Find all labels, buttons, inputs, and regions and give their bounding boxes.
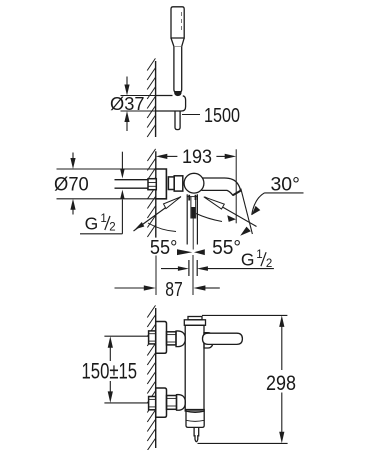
label 55deg right [212, 237, 241, 259]
lower connector nut [167, 396, 177, 410]
leader line 1500 [182, 114, 200, 116]
wall hatching (top view) [147, 58, 155, 137]
svg-text:55°: 55° [212, 237, 241, 259]
wall hatching (bottom view) [147, 305, 155, 450]
arrow at end of 30-degree line [240, 227, 251, 236]
lower elbow dome [177, 395, 186, 411]
svg-text:1: 1 [256, 249, 262, 261]
bow-tie arrows at outlet bottom [177, 249, 205, 255]
wall (top view) [155, 61, 157, 137]
svg-text:Ø70: Ø70 [54, 175, 89, 196]
label Ø70 [54, 175, 89, 196]
temperature handle [203, 333, 243, 344]
svg-text:G: G [85, 213, 99, 233]
dimension 298 arrows [279, 315, 284, 443]
wall (bottom view) [155, 308, 157, 448]
wall (middle view) [155, 151, 157, 237]
svg-text:2: 2 [266, 258, 272, 270]
svg-text:87: 87 [165, 279, 183, 301]
svg-text:193: 193 [182, 147, 212, 168]
svg-text:1: 1 [100, 213, 106, 225]
open arrowhead on right ray [204, 197, 225, 209]
dimension Ø70 extension lines [57, 169, 156, 199]
dimension 298 extension lines [198, 315, 288, 443]
upper elbow dome [176, 331, 185, 347]
hand shower head [171, 7, 184, 38]
label 1500 (hose length) [204, 105, 240, 127]
30-degree leader [252, 193, 304, 215]
svg-text:G: G [241, 250, 255, 270]
body top cap [184, 317, 205, 326]
svg-text:150±15: 150±15 [82, 359, 138, 384]
hand shower handle [171, 38, 184, 92]
dimension Ø70 arrows [70, 153, 75, 215]
lower union nut behind wall [149, 397, 156, 410]
thermostat body [185, 325, 204, 411]
svg-text:298: 298 [266, 371, 296, 395]
left angle arc [148, 223, 176, 232]
outlet nozzle [194, 427, 199, 441]
shower wall bracket [156, 96, 186, 112]
dimension 150±15 extension lines [104, 336, 148, 403]
hand shower connector tip (dark) [175, 92, 182, 96]
dimension Ø37 extension lines [121, 96, 156, 112]
spout [202, 178, 241, 195]
escutcheon (middle) [156, 169, 167, 199]
dimension 193 line and arrows [156, 154, 236, 159]
valve body rects [168, 176, 182, 191]
label 30deg [271, 173, 300, 195]
label 55deg left [150, 237, 178, 259]
label 150±15 [79, 359, 141, 384]
lower escutcheon [156, 388, 167, 417]
label 193 [182, 147, 212, 168]
shower hose [175, 111, 180, 130]
G1/2 right dimension verticals [189, 260, 197, 276]
label G1/2 right [241, 249, 272, 270]
55-degree left ray [134, 197, 182, 232]
label G1/2 left [85, 213, 116, 234]
30-degree spray line [241, 189, 253, 235]
knob (mixer handle end) [184, 173, 204, 193]
55-degree right ray [205, 197, 257, 227]
wall hatching (middle view) [147, 149, 155, 237]
outlet housing (aerator) [186, 410, 204, 428]
label 298 [266, 371, 296, 395]
svg-text:30°: 30° [271, 173, 300, 195]
pipe nut [148, 179, 156, 190]
svg-text:55°: 55° [150, 237, 178, 259]
handle dome [204, 333, 213, 348]
upper escutcheon [156, 322, 167, 354]
dimension Ø37 arrows [124, 77, 129, 132]
svg-text:1500: 1500 [204, 105, 240, 127]
centre line below outlet [192, 255, 194, 295]
svg-text:2: 2 [109, 221, 115, 233]
G1/2 left arrows [80, 152, 125, 234]
extension line right (spout tip) [235, 149, 237, 223]
dimension 150±15 arrows [108, 336, 113, 403]
label Ø37 [110, 94, 145, 114]
solid arrow at left ray end [135, 222, 144, 229]
G1/2 right dimension arrows [161, 266, 274, 271]
right angle arc with arrow [196, 214, 236, 222]
label 87 [165, 279, 183, 301]
87 left extension line [155, 256, 157, 296]
svg-text:Ø37: Ø37 [110, 94, 145, 114]
dimension 87 [115, 285, 220, 290]
open arrowhead on left ray [164, 197, 181, 209]
outlet pipe below knob [187, 194, 197, 249]
upper union nut behind wall [149, 331, 156, 344]
supply pipe (G1/2 nipple) [115, 180, 149, 189]
upper connector nut [167, 332, 177, 345]
